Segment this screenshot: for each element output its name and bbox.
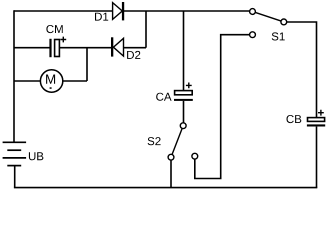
wire S1 output to right rail	[286, 22, 317, 117]
label D2	[127, 51, 140, 59]
wire CA to S2	[183, 101, 185, 124]
wire node CM-D2 segment right	[123, 47, 146, 49]
motor M	[40, 70, 62, 92]
switch S2	[168, 123, 198, 160]
wire vertical D1-cathode to D2	[145, 11, 147, 48]
wire battery negative lead	[14, 166, 16, 188]
label S2	[148, 137, 161, 145]
wire bottom rail	[14, 187, 317, 189]
battery UB	[3, 142, 27, 165]
label S1	[272, 32, 285, 40]
label CM	[46, 25, 62, 33]
capacitor CM	[49, 39, 59, 57]
wire vertical motor branch	[86, 48, 88, 81]
wire top rail	[14, 10, 253, 12]
wire CB to bottom rail	[316, 127, 318, 188]
wire S2 left contact to bottom rail	[170, 157, 172, 187]
label CA	[156, 93, 171, 101]
wire left rail	[13, 10, 15, 142]
wire vertical top rail to CA	[183, 11, 185, 90]
label D1	[95, 13, 108, 21]
capacitor CA	[174, 91, 193, 101]
polarity plus CB	[318, 110, 324, 116]
wire motor left	[14, 80, 41, 82]
wire S2 right contact to S1 lower contact	[195, 35, 250, 179]
diode D2	[111, 37, 124, 56]
capacitor CB	[307, 118, 325, 127]
wire motor right	[62, 80, 87, 82]
switch S1	[250, 9, 287, 38]
wire node CM-D2 segment middle	[60, 47, 111, 49]
wire node CM-D2 segment left	[14, 47, 50, 49]
polarity plus CM	[60, 37, 66, 43]
polarity plus CA	[186, 83, 192, 89]
label CB	[287, 115, 302, 123]
label UB	[29, 152, 44, 160]
diode D1	[113, 2, 125, 20]
